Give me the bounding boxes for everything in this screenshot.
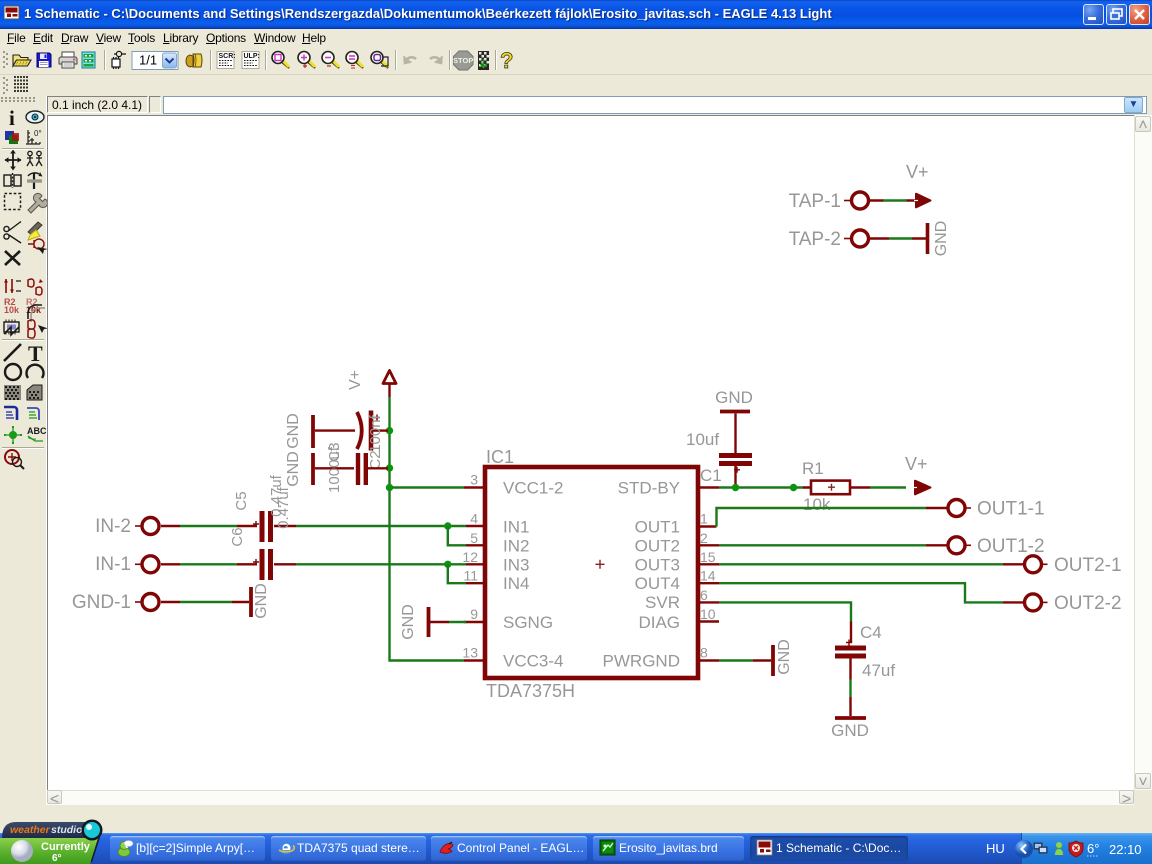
wire branch to pin 11 bbox=[448, 564, 466, 583]
pin number 10 bbox=[700, 606, 716, 622]
weather widget bbox=[0, 818, 110, 864]
toolbar row 1 bbox=[0, 47, 1152, 75]
pin number 13 bbox=[462, 645, 478, 661]
svg-text:IN-2: IN-2 bbox=[95, 516, 131, 537]
svg-text:8: 8 bbox=[700, 645, 708, 661]
svg-text:4: 4 bbox=[470, 511, 478, 527]
ground label GND (pin 8) bbox=[776, 639, 793, 675]
svg-text:C5: C5 bbox=[233, 491, 250, 510]
svg-text:C6: C6 bbox=[229, 527, 246, 546]
pin stub 8 bbox=[698, 659, 719, 661]
svg-text:OUT3: OUT3 bbox=[635, 555, 680, 574]
pin pad OUT1-2 bbox=[948, 537, 971, 554]
svg-text:R1: R1 bbox=[802, 459, 824, 478]
svg-text:IC1: IC1 bbox=[486, 447, 514, 467]
pin pad OUT1-1 bbox=[948, 500, 971, 517]
svg-text:VCC1-2: VCC1-2 bbox=[503, 479, 563, 498]
capacitor C4 plates bbox=[835, 640, 866, 657]
svg-text:ABC: ABC bbox=[27, 426, 47, 436]
ground bar (C3 left) bbox=[311, 453, 315, 485]
pin pad GND-1 bbox=[135, 594, 159, 611]
ground bar (GND-1) bbox=[249, 587, 253, 617]
pin stub 13 bbox=[464, 659, 485, 661]
svg-text:OUT1-2: OUT1-2 bbox=[977, 536, 1045, 557]
pin stub 11 bbox=[466, 582, 485, 584]
svg-text:6: 6 bbox=[700, 587, 708, 603]
svg-text:SCR:: SCR: bbox=[219, 53, 236, 60]
svg-text:OUT2-1: OUT2-1 bbox=[1054, 555, 1122, 576]
wire TAP-2 to GND bbox=[870, 237, 927, 239]
pin pad OUT2-1 bbox=[1025, 556, 1048, 573]
svg-text:GND: GND bbox=[715, 388, 753, 407]
wire OUT1 to OUT1-1 bbox=[717, 508, 948, 527]
pin number 1 bbox=[700, 511, 708, 527]
svg-text:?: ? bbox=[500, 48, 513, 73]
label R1 bbox=[802, 459, 824, 478]
junction on rail at pin3 wire bbox=[386, 484, 393, 491]
capacitor C2 polarized plates bbox=[357, 411, 380, 451]
title bar bbox=[0, 0, 1152, 29]
svg-text:GND: GND bbox=[253, 583, 270, 619]
pin stub 6 bbox=[698, 601, 719, 603]
junction at C1 bbox=[732, 484, 739, 491]
svg-text:3: 3 bbox=[470, 472, 478, 488]
svg-text:GND: GND bbox=[933, 221, 950, 257]
svg-text:10k: 10k bbox=[803, 495, 831, 514]
pin name PWRGND bbox=[603, 652, 680, 671]
svg-text:1000uf: 1000uf bbox=[326, 446, 343, 493]
wire STD-BY to R1 bbox=[719, 486, 804, 488]
svg-text:IN4: IN4 bbox=[503, 574, 529, 593]
label C4 bbox=[860, 623, 882, 642]
node OUT1-2 label bbox=[977, 536, 1045, 557]
svg-text:VCC3-4: VCC3-4 bbox=[503, 652, 563, 671]
ground label GND (pin 9) bbox=[400, 604, 417, 640]
wire SVR to C4 bbox=[719, 602, 851, 643]
svg-text:GND: GND bbox=[285, 413, 302, 449]
value 1000uf bbox=[326, 446, 343, 493]
pin stub STD-BY bbox=[698, 486, 719, 488]
svg-text:ULP:: ULP: bbox=[244, 53, 260, 60]
svg-text:C4: C4 bbox=[860, 623, 882, 642]
svg-text:6°: 6° bbox=[1087, 841, 1099, 856]
svg-text:47uf: 47uf bbox=[862, 661, 895, 680]
svg-text:2: 2 bbox=[700, 530, 708, 546]
value 0.47uf (C6) bbox=[275, 486, 292, 529]
svg-text:15: 15 bbox=[700, 549, 716, 565]
pin pad TAP-1 bbox=[844, 192, 869, 209]
svg-text:V+: V+ bbox=[906, 162, 929, 182]
svg-text:IN-1: IN-1 bbox=[95, 554, 131, 575]
supply V+ label (rail) bbox=[347, 370, 364, 390]
pin name SVR bbox=[645, 593, 680, 612]
canvas bbox=[47, 115, 1134, 790]
svg-text:SVR: SVR bbox=[645, 593, 680, 612]
svg-text:OUT2-2: OUT2-2 bbox=[1054, 593, 1122, 614]
pin number 2 bbox=[700, 530, 708, 546]
capacitor C1 plates bbox=[719, 456, 752, 473]
supply V+ arrow (R1) bbox=[913, 481, 931, 495]
wire C5 to junction and pin 4 bbox=[274, 525, 466, 527]
junction on rail at C2 bbox=[386, 427, 393, 434]
wire C3 to rail bbox=[368, 467, 388, 469]
svg-text:OUT1: OUT1 bbox=[635, 518, 680, 537]
pin name IN4 bbox=[503, 574, 529, 593]
wire V+ rail vertical bbox=[390, 397, 465, 661]
wire GND-1 to ground bbox=[161, 601, 249, 603]
node IN-1 label bbox=[95, 554, 131, 575]
taskbar button icons bbox=[116, 839, 134, 857]
svg-text:10uf: 10uf bbox=[686, 430, 719, 449]
wire OUT2 to OUT1-2 bbox=[719, 544, 947, 546]
capacitor C5 plates bbox=[253, 511, 271, 542]
pin name DIAG bbox=[638, 613, 680, 632]
value 47uf bbox=[862, 661, 895, 680]
wire C6 to junction and pin 12 bbox=[274, 563, 466, 565]
ground label GND (C1 top) bbox=[715, 388, 753, 407]
node OUT1-1 label bbox=[977, 499, 1045, 520]
svg-text:0°: 0° bbox=[34, 129, 42, 138]
pin pad IN-2 bbox=[135, 518, 159, 535]
wire IN-1 to C6 bbox=[161, 563, 257, 565]
svg-text:IN1: IN1 bbox=[503, 518, 529, 537]
label C6 bbox=[229, 527, 246, 546]
svg-text:weather: weather bbox=[10, 824, 51, 836]
svg-text:V+: V+ bbox=[905, 454, 928, 474]
pin number 9 bbox=[470, 606, 478, 622]
pin number 12 bbox=[462, 549, 478, 565]
pin stub 3 bbox=[464, 486, 485, 488]
pin number 6 bbox=[700, 587, 708, 603]
svg-text:10k: 10k bbox=[4, 305, 20, 315]
pin name IN2 bbox=[503, 536, 529, 555]
svg-text:STOP: STOP bbox=[453, 56, 473, 65]
svg-text:SGNG: SGNG bbox=[503, 613, 553, 632]
svg-text:12: 12 bbox=[462, 549, 478, 565]
label IC1 bbox=[486, 447, 514, 467]
svg-text:PWRGND: PWRGND bbox=[603, 652, 680, 671]
node OUT2-2 label bbox=[1054, 593, 1122, 614]
svg-text:C1: C1 bbox=[700, 466, 722, 485]
svg-text:TDA7375H: TDA7375H bbox=[486, 681, 575, 701]
label TDA7375H bbox=[486, 681, 575, 701]
taskbar bbox=[0, 833, 1152, 864]
capacitor C6 plates bbox=[253, 549, 271, 580]
ground bar (pin 9) bbox=[427, 607, 431, 637]
wire OUT3 to OUT2-1 bbox=[719, 563, 1024, 565]
value 0.47uf (C5) bbox=[268, 474, 285, 517]
node TAP-1 name label bbox=[789, 191, 841, 212]
toolbar row 2 bbox=[0, 75, 1152, 96]
pin name SGNG bbox=[503, 613, 553, 632]
pin number 11 bbox=[463, 568, 478, 584]
wire C1 to STD-BY net bbox=[734, 466, 736, 488]
junction at pin12 branch bbox=[444, 561, 451, 568]
wire GND to C2 bbox=[315, 429, 355, 431]
pin stub 15 bbox=[698, 563, 719, 565]
svg-text:GND: GND bbox=[400, 604, 417, 640]
ground label GND (C2) bbox=[285, 413, 302, 449]
pin stub 1 bbox=[698, 525, 717, 527]
pin stub 12 bbox=[466, 563, 485, 565]
wire branch to pin 5 bbox=[448, 526, 466, 545]
ground bar (C2 left) bbox=[311, 415, 315, 448]
capacitor C3 plates bbox=[358, 453, 366, 485]
svg-text:TAP-1: TAP-1 bbox=[789, 191, 841, 212]
svg-text:14: 14 bbox=[700, 568, 716, 584]
node GND-1 label bbox=[72, 592, 131, 613]
svg-text:Currently: Currently bbox=[41, 841, 91, 853]
pin stub 9 bbox=[464, 621, 485, 623]
pin number 8 bbox=[700, 645, 708, 661]
junction at pin4 branch bbox=[444, 522, 451, 529]
pin number 4 bbox=[470, 511, 478, 527]
ground label GND (C4) bbox=[831, 721, 869, 740]
left tool palette bbox=[0, 96, 47, 805]
pin name STD-BY bbox=[618, 479, 680, 498]
svg-text:11: 11 bbox=[463, 568, 478, 584]
wire GND to C1 bbox=[734, 414, 736, 454]
pin number 15 bbox=[700, 549, 716, 565]
wire ground to pin 9 bbox=[430, 621, 466, 623]
value 10uf bbox=[686, 430, 719, 449]
pin name IN1 bbox=[503, 518, 529, 537]
wire C2 to rail bbox=[373, 429, 388, 431]
svg-text:OUT1-1: OUT1-1 bbox=[977, 499, 1045, 520]
pin name VCC1-2 bbox=[503, 479, 563, 498]
label C1 bbox=[700, 466, 722, 485]
node IN-2 label bbox=[95, 516, 131, 537]
pin pad OUT2-2 bbox=[1025, 594, 1048, 611]
scrollbars bbox=[1134, 115, 1152, 790]
junction at R1 bbox=[790, 484, 797, 491]
svg-text:OUT2: OUT2 bbox=[635, 536, 680, 555]
label C2 bbox=[367, 450, 384, 469]
pin name OUT4 bbox=[635, 574, 680, 593]
pin stub 4 bbox=[466, 525, 485, 527]
svg-text:5: 5 bbox=[470, 530, 478, 546]
pin stub 5 bbox=[466, 544, 485, 546]
pin name IN3 bbox=[503, 555, 529, 574]
value 100nf bbox=[367, 414, 384, 452]
svg-text:6°: 6° bbox=[52, 853, 62, 864]
svg-text:10: 10 bbox=[700, 606, 716, 622]
svg-text:i: i bbox=[9, 106, 15, 130]
wire R1 to V+ bbox=[870, 486, 906, 488]
svg-text:1/1: 1/1 bbox=[139, 53, 157, 68]
wire IN-2 to C5 bbox=[161, 525, 257, 527]
svg-text:0.47uf: 0.47uf bbox=[275, 486, 292, 529]
svg-text:V+: V+ bbox=[347, 370, 364, 390]
ground GND (TAP-2) bbox=[928, 221, 951, 257]
supply V+ arrow (TAP) bbox=[914, 194, 931, 208]
pin pad IN-1 bbox=[135, 556, 159, 573]
ground label GND (C3) bbox=[285, 451, 302, 487]
svg-text:9: 9 bbox=[470, 606, 478, 622]
junction on rail at C3 bbox=[386, 464, 393, 471]
ground bar (C4) bbox=[835, 716, 866, 720]
label C3 bbox=[326, 442, 343, 461]
svg-text:GND: GND bbox=[285, 451, 302, 487]
pin name VCC3-4 bbox=[503, 652, 563, 671]
wire OUT4 to OUT2-2 bbox=[719, 583, 1024, 602]
wire C4 to GND bbox=[849, 659, 851, 717]
node TAP-2 name label bbox=[789, 229, 841, 250]
pin pad TAP-2 bbox=[844, 230, 869, 247]
svg-text:IN2: IN2 bbox=[503, 536, 529, 555]
supply V+ label (R1) bbox=[905, 454, 928, 474]
pin name OUT2 bbox=[635, 536, 680, 555]
svg-text:OUT4: OUT4 bbox=[635, 574, 680, 593]
wire rail to pin 3 bbox=[392, 486, 464, 488]
svg-text:STD-BY: STD-BY bbox=[618, 479, 680, 498]
ground label GND (GND-1) bbox=[253, 583, 270, 619]
tray icons bbox=[1014, 839, 1144, 859]
value 10k bbox=[803, 495, 831, 514]
wire TAP-1 to V+ bbox=[870, 199, 916, 201]
pin name OUT1 bbox=[635, 518, 680, 537]
svg-text:T: T bbox=[28, 341, 43, 366]
op IC1 body TDA7375H bbox=[485, 467, 698, 678]
wire PWRGND to ground bbox=[719, 659, 771, 661]
svg-text:1: 1 bbox=[700, 511, 708, 527]
svg-text:studio: studio bbox=[51, 824, 83, 836]
ground bar (pin 8) bbox=[771, 645, 775, 676]
menu bar bbox=[0, 29, 1152, 47]
svg-text:DIAG: DIAG bbox=[638, 613, 680, 632]
svg-text:GND: GND bbox=[776, 639, 793, 675]
svg-text:GND: GND bbox=[831, 721, 869, 740]
pin stub 14 bbox=[698, 582, 719, 584]
pin stub 2 bbox=[698, 544, 719, 546]
resistor R1 bbox=[803, 481, 870, 495]
coordinate bar bbox=[0, 96, 1152, 115]
pin number 3 bbox=[470, 472, 478, 488]
pin number 14 bbox=[700, 568, 716, 584]
svg-text:100nf: 100nf bbox=[367, 414, 384, 452]
svg-text:13: 13 bbox=[462, 645, 478, 661]
pin name OUT3 bbox=[635, 555, 680, 574]
supply V+ symbol (rail) bbox=[383, 371, 396, 398]
supply V+ label (TAP) bbox=[906, 162, 929, 182]
label C5 bbox=[233, 491, 250, 510]
pin number 5 bbox=[470, 530, 478, 546]
node OUT2-1 label bbox=[1054, 555, 1122, 576]
svg-text:GND-1: GND-1 bbox=[72, 592, 131, 613]
pin stub 10 bbox=[698, 620, 719, 622]
svg-text:IN3: IN3 bbox=[503, 555, 529, 574]
origin cross IC1 bbox=[596, 560, 605, 569]
ground bar (C1) bbox=[720, 410, 750, 414]
wire GND to C3 bbox=[315, 467, 354, 469]
svg-text:TAP-2: TAP-2 bbox=[789, 229, 841, 250]
